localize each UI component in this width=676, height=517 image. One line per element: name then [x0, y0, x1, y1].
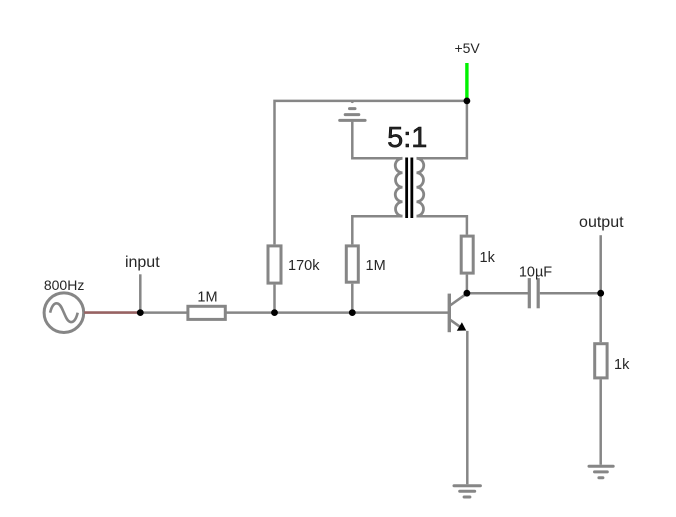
svg-text:+5V: +5V	[454, 40, 480, 56]
ac source 800Hz	[44, 293, 84, 333]
capacitor 10uF	[529, 278, 538, 308]
svg-text:800Hz: 800Hz	[44, 277, 84, 293]
junction 1M/base rail	[349, 309, 356, 316]
resistor 1k collector (vertical)	[461, 236, 473, 273]
wire 1k to collector node	[466, 275, 469, 294]
wire ground stem to transformer primary top	[352, 122, 402, 159]
svg-text:170k: 170k	[288, 258, 320, 274]
node output post wire	[599, 235, 602, 293]
+5V rail (green wire)	[465, 63, 468, 100]
transformer T1 secondary winding (right)	[417, 158, 424, 216]
wire 170k bottom to base rail	[273, 285, 276, 313]
transformer T1 core	[407, 158, 412, 219]
svg-text:5:1: 5:1	[387, 122, 427, 154]
wire input node to series 1M resistor	[140, 311, 188, 314]
wire right vertical down to transformer secondary top	[417, 101, 467, 158]
transistor Q1 (NPN)	[448, 293, 467, 332]
resistor 1M bias (vertical)	[346, 246, 358, 282]
wire emitter to ground	[466, 331, 469, 484]
svg-text:10µF: 10µF	[519, 264, 552, 280]
wire output node down to load resistor	[599, 293, 602, 342]
wire collector to capacitor	[467, 292, 528, 295]
svg-text:1k: 1k	[480, 250, 496, 266]
svg-text:input: input	[125, 254, 160, 271]
ground (emitter)	[454, 486, 480, 497]
svg-text:1M: 1M	[197, 289, 217, 305]
svg-text:1M: 1M	[366, 258, 386, 274]
wire base rail (1M to transistor base)	[227, 311, 449, 314]
svg-text:output: output	[579, 214, 624, 231]
junction input node	[137, 309, 144, 316]
wire load resistor to ground	[599, 379, 602, 464]
wire transformer primary bottom to 1M bias resistor	[352, 216, 402, 244]
resistor 170k (vertical)	[268, 246, 281, 283]
resistor 1k load (vertical)	[595, 344, 607, 378]
ground (inverted, above transformer primary)	[340, 109, 365, 121]
wire post nub on top rail	[351, 100, 354, 103]
junction 170k/base rail	[271, 309, 278, 316]
junction +5V node	[464, 98, 471, 105]
node input post wire	[139, 274, 142, 312]
wire source to input node (red, slightly negative voltage)	[84, 311, 140, 314]
junction output node	[597, 290, 604, 297]
transformer T1 primary winding (left)	[395, 158, 402, 216]
wire capacitor to output node	[540, 292, 601, 295]
wire 1M bottom to base rail	[351, 284, 354, 313]
wire transformer secondary bottom to 1k collector resistor	[417, 216, 467, 234]
svg-text:1k: 1k	[614, 357, 630, 373]
resistor 1M series (horizontal)	[188, 306, 225, 319]
ground (output load)	[589, 466, 613, 477]
wire top rail from 170k up and across	[275, 101, 467, 245]
junction collector node	[464, 290, 471, 297]
